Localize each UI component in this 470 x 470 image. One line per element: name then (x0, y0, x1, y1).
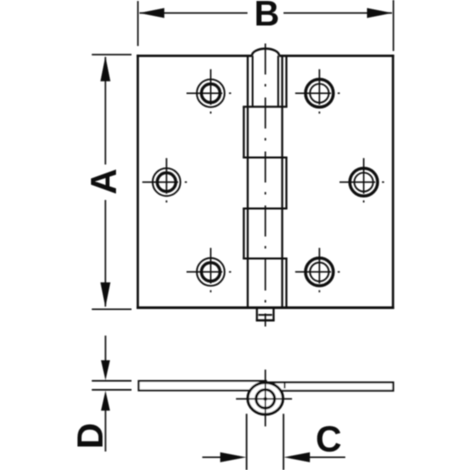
svg-text:A: A (83, 169, 124, 195)
svg-text:D: D (70, 423, 111, 449)
svg-text:B: B (254, 0, 279, 34)
svg-text:C: C (316, 419, 342, 460)
